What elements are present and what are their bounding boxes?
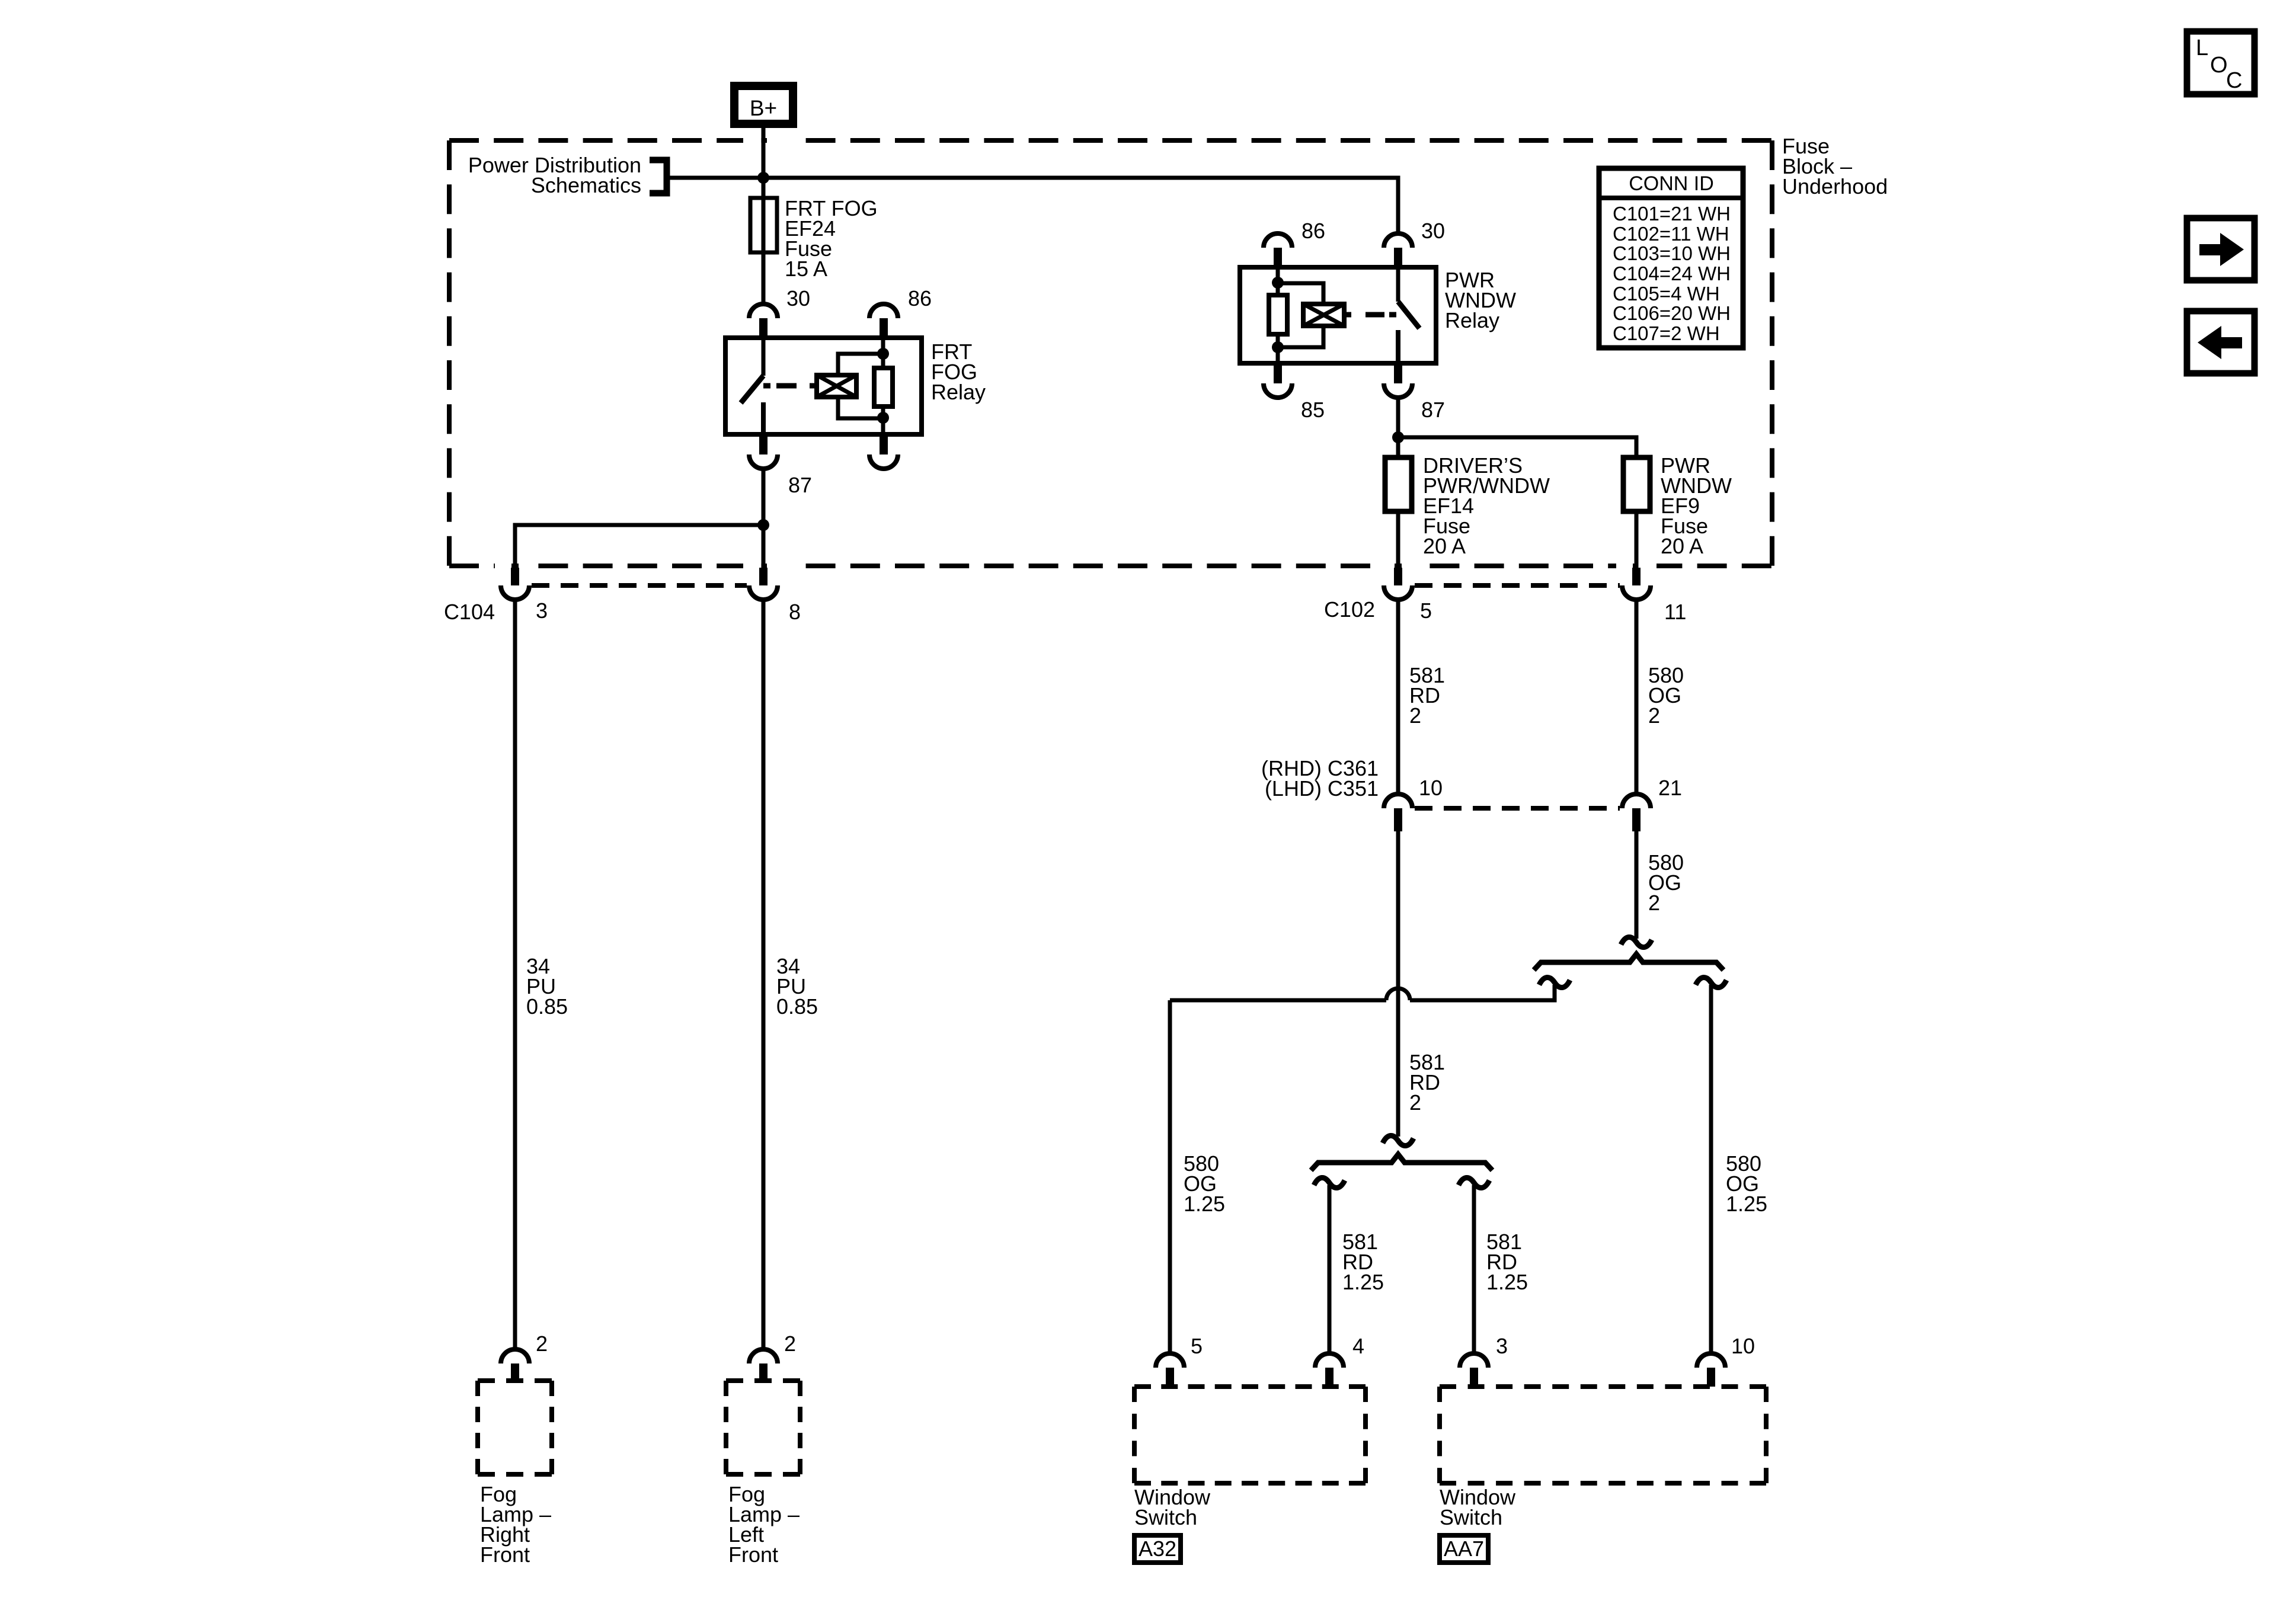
svg-text:Schematics: Schematics [531,173,641,197]
relay FRT FOG coil ground pin connector [869,434,898,469]
wire relay FRT FOG 87 to branch node [762,469,766,568]
border gaps at wire crossings [495,137,1657,569]
fuse DRIVER'S PWR/WNDW EF14 20A [1385,453,1550,558]
relay FRT FOG box [725,338,922,434]
svg-text:11: 11 [1664,600,1686,624]
connector window switch AA7 pin 10 [1697,1334,1755,1387]
window switch A32 box [1134,1387,1366,1529]
svg-text:5: 5 [1191,1334,1203,1358]
svg-text:1.25: 1.25 [1726,1192,1767,1216]
wire 580 OG 1.25 right leg [1711,985,1767,1352]
svg-text:1.25: 1.25 [1342,1270,1384,1294]
window switch AA7 badge [1440,1535,1488,1563]
wire 34 PU 0.85 left front leg [763,600,818,1349]
relay PWR WNDW pin 85 connector [1264,363,1325,422]
svg-text:B+: B+ [750,96,777,120]
svg-text:A32: A32 [1139,1537,1176,1561]
svg-text:4: 4 [1352,1334,1364,1358]
svg-text:85: 85 [1301,398,1325,422]
wire feed to EF9 fuse [1398,437,1636,457]
wire 581 RD 2 label lower [1409,1050,1445,1115]
svg-text:30: 30 [786,286,810,311]
wire EF14 fuse to C102 pin 5 [1396,511,1400,568]
svg-text:2: 2 [1648,891,1660,915]
wire 581 RD 2 below C361 [1396,831,1400,1137]
svg-text:C106=20 WH: C106=20 WH [1613,302,1731,324]
node branch to right fog lamp [757,519,769,531]
relay PWR WNDW actuation dashes [1344,312,1396,318]
relay FRT FOG label [931,340,986,404]
splice marker on 581 RD 2 [1383,1135,1414,1145]
svg-text:2: 2 [1409,1090,1421,1115]
crossover hop of jumper over 581 RD wire [1386,988,1410,1000]
node junction at B+ feed [757,172,769,184]
wire 580 OG 2 below C361 [1636,831,1684,939]
splice brace S2 [1311,1154,1492,1170]
relay PWR WNDW pin 87 connector [1384,363,1445,422]
svg-text:Switch: Switch [1134,1505,1197,1529]
svg-text:3: 3 [536,598,548,623]
svg-text:Switch: Switch [1440,1505,1502,1529]
fuse block label [1782,134,1888,199]
power distribution schematics label [468,153,641,197]
relay PWR WNDW label [1445,268,1516,332]
connector C104 pin 3 [444,568,548,624]
svg-text:1.25: 1.25 [1184,1192,1225,1216]
wire relay PWR WNDW 87 down [1396,398,1400,457]
splice S2 left branch clip marker [1314,1177,1345,1188]
svg-text:0.85: 0.85 [526,994,568,1019]
connector C361/C351 pin 10 [1384,776,1443,831]
svg-text:20 A: 20 A [1423,534,1466,558]
connector C102 pin 11 [1622,568,1686,624]
svg-text:C: C [2226,68,2242,93]
fuse block underhood dashed border [449,140,1772,566]
arrow icon next page [2187,218,2255,280]
relay FRT FOG pin 30 connector [749,286,810,338]
svg-text:C104: C104 [444,600,495,624]
splice brace S1 [1534,954,1723,970]
relay FRT FOG pin 87 connector [749,434,812,497]
svg-text:Underhood: Underhood [1782,174,1888,199]
svg-text:(LHD) C351: (LHD) C351 [1265,776,1379,801]
relay PWR WNDW resistor [1269,267,1287,363]
svg-text:Front: Front [480,1542,530,1567]
arrow icon previous page [2187,311,2255,373]
svg-text:15 A: 15 A [785,257,827,281]
fog lamp right front box [478,1381,552,1567]
relay FRT FOG coil [817,354,883,418]
svg-text:30: 30 [1421,219,1445,243]
svg-text:5: 5 [1420,598,1432,623]
battery terminal B+ box [734,86,793,124]
svg-text:AA7: AA7 [1444,1537,1484,1561]
connector C102 pin 5 [1324,568,1432,623]
connector C361/C351 dashed tie line [1415,806,1620,811]
svg-text:20 A: 20 A [1661,534,1703,558]
splice marker on 580 OG 2 [1621,937,1652,947]
connector fog lamp right front pin 2 [501,1331,548,1381]
relay PWR WNDW switch contacts [1398,267,1419,363]
splice S1 left branch clip marker [1539,977,1570,987]
wire jumper left of hop [1170,998,1386,1003]
connector window switch AA7 pin 3 [1460,1334,1508,1387]
relay FRT FOG pin 86 connector [869,286,932,338]
wire 581 RD 1.25 to A32 pin 4 [1329,1185,1384,1352]
svg-text:C107=2 WH: C107=2 WH [1613,322,1720,344]
svg-text:2: 2 [1409,703,1421,728]
wire 34 PU 0.85 right front leg [515,600,568,1349]
fuse FRT FOG EF24 15A [750,196,878,281]
relay PWR WNDW pin 86 connector [1264,219,1325,267]
svg-text:CONN ID: CONN ID [1629,172,1714,195]
relay PWR WNDW coil [1278,283,1344,347]
wire main horizontal feed [670,178,1398,232]
svg-text:21: 21 [1658,776,1682,800]
splice S2 right branch clip marker [1459,1177,1489,1188]
fuse PWR WNDW EF9 20A [1623,453,1732,558]
fog lamp left front box [726,1381,800,1567]
wire branch to left leg [515,525,763,568]
wire EF9 fuse to C102 pin 11 [1635,511,1639,568]
svg-text:10: 10 [1731,1334,1755,1358]
svg-text:Front: Front [728,1542,778,1567]
wire 581 RD 2 from C102 pin 5 [1398,600,1445,792]
relay PWR WNDW box [1240,267,1436,363]
svg-text:C103=10 WH: C103=10 WH [1613,242,1731,264]
CONN ID table [1599,168,1743,348]
svg-text:C102: C102 [1324,597,1375,622]
svg-text:86: 86 [1302,219,1325,243]
connector fog lamp left front pin 2 [749,1331,796,1381]
svg-text:87: 87 [1421,398,1445,422]
relay FRT FOG actuation dashes [763,383,817,389]
svg-text:10: 10 [1419,776,1443,800]
svg-text:3: 3 [1496,1334,1508,1358]
svg-text:C105=4 WH: C105=4 WH [1613,283,1720,305]
connector C102 dashed tie line [1415,583,1620,588]
node feed to EF9 fuse [1392,431,1404,443]
bracket for power distribution reference [650,160,667,193]
svg-text:C102=11 WH: C102=11 WH [1613,223,1729,245]
svg-text:86: 86 [908,286,932,311]
window switch AA7 box [1440,1387,1766,1529]
svg-text:1.25: 1.25 [1486,1270,1528,1294]
relay PWR WNDW pin 30 connector [1384,219,1445,267]
wire 580 OG 2 from C102 pin 11 [1636,600,1684,792]
window switch A32 badge [1134,1535,1181,1563]
svg-text:C104=24 WH: C104=24 WH [1613,263,1731,284]
svg-text:2: 2 [1648,703,1660,728]
svg-text:Relay: Relay [1445,308,1499,332]
connector window switch A32 pin 5 [1156,1334,1203,1387]
svg-text:C101=21 WH: C101=21 WH [1613,203,1731,225]
svg-text:2: 2 [536,1331,548,1356]
wire splice S1 left branch to A32 leg [1410,985,1555,1000]
svg-text:8: 8 [789,600,801,624]
svg-text:2: 2 [784,1331,796,1356]
svg-text:Relay: Relay [931,380,986,404]
relay FRT FOG resistor [874,338,893,434]
svg-text:87: 87 [788,473,812,497]
connector C361/C351 pin 21 [1622,776,1682,831]
connector C361/C351 labels [1261,756,1379,801]
wire B+ feed down [762,128,766,303]
connector C104 dashed tie line [532,583,747,588]
connector C104 pin 8 [749,568,801,624]
connector window switch A32 pin 4 [1315,1334,1364,1387]
LOC page icon [2187,31,2255,94]
svg-text:0.85: 0.85 [776,994,818,1019]
wire 580 OG 1.25 left leg [1170,1000,1225,1352]
splice S1 right branch clip marker [1696,977,1726,987]
svg-text:O: O [2210,53,2228,78]
svg-text:L: L [2196,36,2208,60]
wire 581 RD 1.25 to AA7 pin 3 [1474,1185,1528,1352]
relay FRT FOG switch contacts [741,338,763,434]
